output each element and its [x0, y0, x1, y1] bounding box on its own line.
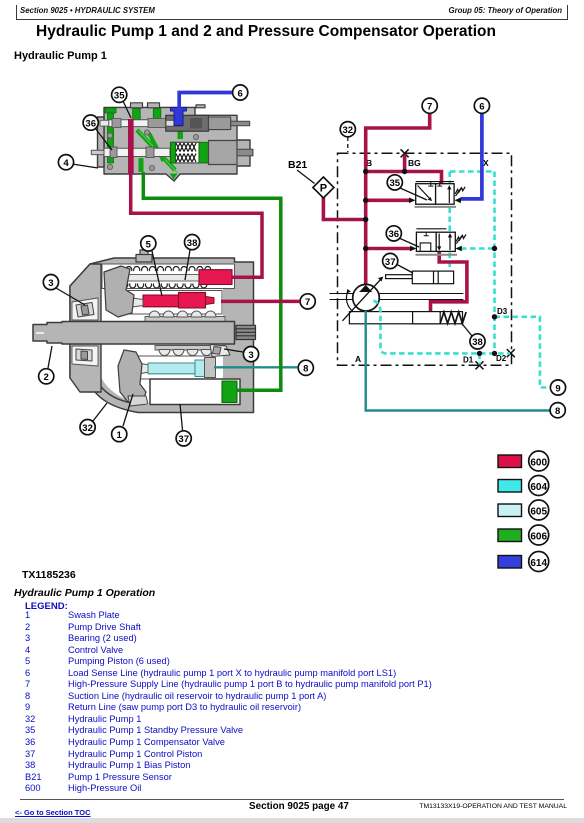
- svg-text:3: 3: [248, 350, 253, 361]
- right drain vertical: [493, 172, 496, 354]
- pump symbol: [330, 277, 464, 321]
- green diagonal channels: [137, 130, 175, 170]
- svg-text:604: 604: [530, 482, 547, 493]
- callout 7 (schematic): [422, 98, 437, 113]
- pump case drain line to D1/D2 (over bias piston): [374, 301, 511, 365]
- crimson channel over bores: [128, 119, 134, 174]
- control valve crimson wire to pump bias piston: [131, 172, 262, 277]
- suction piston bore: [134, 356, 213, 379]
- svg-text:8: 8: [303, 364, 308, 375]
- top mounting boss: [136, 250, 152, 262]
- green block at spring end: [199, 142, 209, 163]
- plugged port X at D1: [476, 361, 484, 369]
- callout 6 (schematic): [474, 98, 489, 113]
- valve 36: compensator valve: [410, 229, 466, 255]
- junction at valve 35 feed: [363, 198, 368, 203]
- control valve green wire to pump control piston: [143, 172, 280, 390]
- control piston green end (606): [222, 381, 237, 403]
- callout 35 (schematic): [387, 175, 427, 200]
- svg-text:32: 32: [343, 125, 354, 136]
- callout 38 (cross-section): [185, 235, 200, 281]
- callout 3 left (cross-section): [43, 275, 85, 306]
- control piston housing (37): [150, 379, 240, 405]
- cyan dashed case-drain lines: [450, 172, 551, 388]
- lower spring chamber: [171, 142, 200, 163]
- svg-text:35: 35: [114, 91, 125, 102]
- svg-text:37: 37: [385, 257, 396, 268]
- svg-text:3: 3: [48, 278, 53, 289]
- junction at valve 36 feed: [363, 246, 368, 251]
- junction node B: [363, 169, 368, 174]
- junction node D2: [492, 351, 497, 356]
- blue port on top: [171, 107, 187, 125]
- wire: to valve 36 left port: [366, 247, 410, 251]
- crimson channel: [128, 119, 134, 174]
- interior cavity (white): [100, 268, 223, 405]
- piston ball joint: [128, 298, 144, 307]
- swash foot pad: [128, 396, 148, 406]
- swatch 606: [498, 529, 522, 542]
- subtitle: [14, 50, 107, 62]
- pumping piston bore (5): [128, 291, 222, 315]
- right bearing (3): [210, 345, 230, 357]
- callout 5 (cross-section): [141, 236, 162, 296]
- plugged port X at BG: [401, 149, 409, 157]
- svg-text:2: 2: [44, 372, 49, 383]
- wire: to valve 35 left port: [366, 199, 410, 203]
- svg-text:38: 38: [187, 238, 198, 249]
- junction at valve 36 drain: [492, 246, 497, 251]
- valve plate parts row upper: [145, 311, 225, 322]
- load sense blue wire to circle 6 (cross-section): [179, 93, 232, 109]
- callout 36 (cross-section): [83, 115, 112, 150]
- footer center: [249, 801, 349, 812]
- svg-text:D2: D2: [496, 354, 507, 363]
- bias piston 38 symbol with spring: [349, 312, 466, 324]
- footer rule: [20, 799, 564, 800]
- hydraulic pump 1 boundary (32) dash-dot box: [338, 153, 512, 365]
- svg-text:7: 7: [305, 297, 310, 308]
- svg-text:5: 5: [146, 239, 152, 250]
- svg-text:P: P: [320, 183, 327, 195]
- footer left link: [15, 808, 91, 817]
- TX number: [22, 569, 76, 581]
- callout 1 (cross-section): [112, 394, 133, 442]
- footer right: [419, 803, 567, 810]
- swatch 614: [498, 556, 522, 569]
- svg-text:35: 35: [390, 178, 401, 189]
- svg-text:A: A: [355, 354, 361, 364]
- title: [36, 23, 496, 41]
- svg-text:4: 4: [63, 158, 69, 169]
- suction piston cyan (605): [148, 363, 195, 374]
- green channel vertical left: [108, 111, 114, 163]
- svg-text:X: X: [483, 158, 489, 168]
- green channel under blue port: [178, 124, 184, 139]
- svg-text:6: 6: [238, 88, 243, 99]
- svg-text:1: 1: [117, 430, 123, 441]
- swatch 605: [498, 504, 522, 517]
- green top stubs: [133, 109, 141, 122]
- svg-text:9: 9: [555, 383, 560, 394]
- LS line top: [450, 170, 495, 173]
- svg-text:8: 8: [555, 406, 560, 417]
- upper spool bore: [100, 120, 110, 126]
- suction line teal to circle 8 (cross-section): [214, 366, 298, 368]
- wire: B21 sensor branch: [323, 198, 365, 220]
- svg-text:36: 36: [85, 118, 96, 129]
- left cover plate: [70, 264, 101, 392]
- svg-text:6: 6: [479, 102, 484, 113]
- control piston 37 symbol: [386, 271, 454, 284]
- callout 7 (cross-section): [300, 294, 315, 309]
- svg-text:BG: BG: [408, 158, 421, 168]
- high pressure supply wire to circle 7 (cross-section): [221, 300, 300, 304]
- left bearing (3) lower: [76, 349, 92, 361]
- callout 38 (schematic): [461, 323, 485, 350]
- blue load sense wire from circle 6: [461, 114, 482, 199]
- svg-text:605: 605: [530, 507, 547, 518]
- control valve body: [104, 107, 250, 181]
- operation title: [14, 587, 155, 599]
- right plug: [209, 141, 238, 165]
- bias piston red (38): [199, 270, 232, 285]
- bolt holes: [107, 133, 112, 138]
- callout 37 (cross-section): [176, 404, 191, 446]
- upper solenoid dark block: [166, 115, 209, 131]
- swatch 600 high-pressure oil: [498, 455, 522, 468]
- swash plate (1) upper half: [104, 266, 134, 317]
- wire: valve36 bottom to bias piston: [431, 252, 467, 312]
- callout 37 (schematic): [383, 253, 413, 273]
- drain through valves vertical: [448, 172, 451, 272]
- plugged port X at D2: [507, 349, 515, 357]
- callout 6 (cross-section): [233, 85, 248, 100]
- D1 drain stub: [478, 353, 481, 364]
- svg-text:32: 32: [82, 423, 93, 434]
- svg-text:38: 38: [472, 337, 483, 348]
- D3 to circle 9: [495, 317, 551, 388]
- upper bias bore (38): [102, 264, 235, 289]
- svg-text:37: 37: [178, 434, 189, 445]
- pressure sensor B21: [288, 159, 334, 198]
- wire: circle 7 to port B into pump: [366, 114, 430, 285]
- svg-text:600: 600: [530, 458, 547, 469]
- left bearing (3) upper: [76, 303, 94, 318]
- callout 2 (cross-section): [39, 346, 54, 384]
- pumping piston red (5): [143, 295, 179, 307]
- callout 8 (schematic): [550, 403, 565, 418]
- svg-text:36: 36: [389, 229, 400, 240]
- svg-text:D3: D3: [497, 307, 508, 316]
- callout 4 (cross-section): [58, 155, 98, 170]
- callout 9 (schematic): [550, 380, 565, 395]
- swash plate (1) lower half: [118, 350, 146, 402]
- valve 35: standby pressure valve: [409, 182, 465, 207]
- callout 35 (cross-section): [112, 87, 131, 118]
- junction at B21 branch: [363, 217, 368, 222]
- wire: BG stub: [403, 155, 407, 172]
- junction node D3: [492, 314, 497, 319]
- suction line teal to circle 8: [366, 311, 550, 411]
- suction piston ball joint: [136, 364, 149, 374]
- case curve bottom-left wall: [97, 380, 140, 405]
- svg-text:D1: D1: [463, 356, 474, 365]
- bias spring coils bottom row: [122, 284, 207, 288]
- legend heading: [25, 601, 68, 612]
- callout 32 (schematic): [340, 122, 355, 152]
- pump drive shaft (2): [33, 322, 235, 345]
- crimson high pressure lines: [323, 114, 467, 312]
- swatch 604: [498, 480, 522, 493]
- bias spring guide rod: [112, 275, 202, 282]
- bias spring coils top row: [126, 267, 211, 271]
- valve36 right port line: [461, 247, 495, 250]
- svg-text:B21: B21: [288, 159, 307, 171]
- header rule: [16, 19, 568, 20]
- top bumps: [131, 103, 143, 108]
- valve plate parts row lower: [155, 346, 225, 356]
- svg-text:606: 606: [530, 532, 547, 543]
- junction node D1: [477, 351, 482, 356]
- callout 36 (schematic): [386, 226, 419, 247]
- callout 8 (cross-section): [298, 360, 313, 375]
- callout 3 right (cross-section): [224, 347, 259, 362]
- callout 32 (cross-section): [80, 403, 107, 435]
- wire: B to valve 35 top: [366, 172, 442, 184]
- junction node BG: [402, 169, 407, 174]
- splined shaft end: [236, 325, 256, 339]
- svg-text:614: 614: [530, 558, 547, 569]
- lower spool bore: [104, 148, 170, 156]
- svg-text:7: 7: [427, 102, 432, 113]
- pump housing 32: outer silhouette: [70, 258, 254, 413]
- header left text: [20, 6, 155, 15]
- legend list: [25, 610, 432, 795]
- left end plate: [98, 117, 105, 167]
- header right text: [449, 6, 563, 15]
